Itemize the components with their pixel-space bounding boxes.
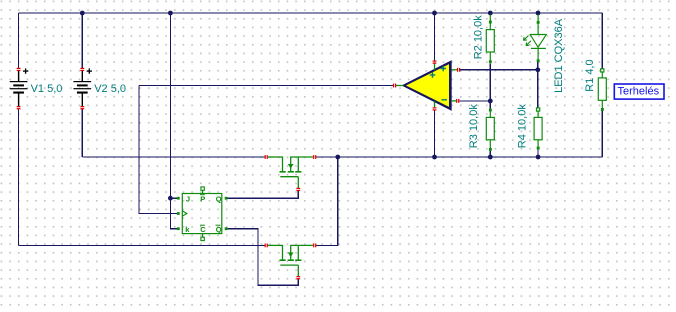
svg-text:Terhelés: Terhelés xyxy=(618,86,660,98)
svg-text:R1 4,0: R1 4,0 xyxy=(584,59,596,91)
svg-text:R3 10,0k: R3 10,0k xyxy=(468,104,480,149)
svg-text:R2 10,0k: R2 10,0k xyxy=(472,15,484,60)
svg-text:V2 5,0: V2 5,0 xyxy=(94,83,126,95)
svg-text:R4 10,0k: R4 10,0k xyxy=(517,104,529,149)
svg-text:V1 5,0: V1 5,0 xyxy=(31,83,63,95)
svg-text:LED1 CQX36A: LED1 CQX36A xyxy=(553,18,565,93)
svg-text:J: J xyxy=(186,194,190,203)
svg-text:C: C xyxy=(200,225,206,234)
svg-text:Q: Q xyxy=(216,194,222,203)
svg-text:Q: Q xyxy=(216,225,222,234)
svg-text:P: P xyxy=(200,194,205,203)
